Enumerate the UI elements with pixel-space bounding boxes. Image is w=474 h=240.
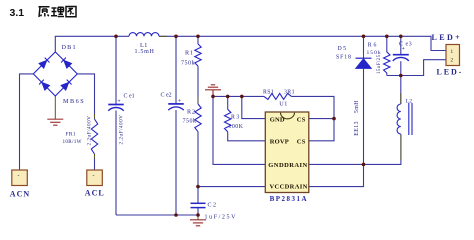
svg-text:L2: L2 — [406, 98, 412, 104]
svg-text:-: - — [93, 173, 95, 179]
svg-text:LED-: LED- — [437, 67, 464, 76]
svg-text:C e1: C e1 — [124, 93, 135, 99]
svg-text:L1: L1 — [140, 42, 148, 49]
svg-text:15uF/25: 15uF/25 — [377, 54, 382, 74]
svg-text:R6: R6 — [368, 42, 379, 48]
svg-text:-: - — [18, 173, 20, 179]
svg-text:750k: 750k — [183, 118, 197, 124]
svg-text:C e2: C e2 — [161, 93, 172, 99]
svg-text:1: 1 — [451, 49, 454, 55]
svg-text:ROVP: ROVP — [270, 138, 289, 145]
svg-text:R2: R2 — [187, 108, 196, 115]
svg-text:10R/1W: 10R/1W — [63, 139, 82, 145]
svg-text:+: + — [118, 98, 121, 104]
svg-text:C 2: C 2 — [208, 203, 217, 209]
svg-text:GNDDRAIN: GNDDRAIN — [268, 162, 307, 169]
svg-text:MB6S: MB6S — [63, 98, 85, 105]
svg-text:VCCDRAIN: VCCDRAIN — [270, 183, 308, 190]
svg-text:1.5mH: 1.5mH — [135, 49, 155, 55]
svg-text:ACN: ACN — [10, 190, 30, 199]
svg-text:1uF/25V: 1uF/25V — [205, 215, 238, 221]
svg-text:+: + — [402, 46, 405, 52]
svg-text:D 5: D 5 — [338, 46, 347, 52]
svg-text:RS1: RS1 — [263, 89, 274, 95]
svg-text:FR1: FR1 — [66, 131, 77, 137]
svg-text:2.2uF/400V: 2.2uF/400V — [119, 115, 125, 145]
svg-text:3.1: 3.1 — [10, 7, 25, 19]
svg-text:GND: GND — [270, 116, 285, 123]
svg-text:+: + — [178, 98, 181, 104]
svg-text:R1: R1 — [185, 49, 194, 56]
svg-text:2.2uF/400V: 2.2uF/400V — [87, 116, 93, 146]
svg-text:ACL: ACL — [85, 189, 105, 198]
svg-text:CS: CS — [297, 138, 306, 145]
svg-text:DB1: DB1 — [62, 44, 77, 51]
svg-text:SF18: SF18 — [336, 55, 352, 61]
svg-text:R 3: R 3 — [231, 114, 239, 120]
svg-text:BP2831A: BP2831A — [270, 195, 309, 203]
svg-text:2: 2 — [451, 58, 454, 64]
svg-text:CS: CS — [297, 116, 306, 123]
svg-text:100K: 100K — [229, 124, 244, 130]
svg-text:EE13 5mH: EE13 5mH — [354, 100, 360, 136]
svg-text:3R1: 3R1 — [284, 89, 295, 95]
svg-text:LED+: LED+ — [432, 33, 463, 42]
svg-text:U1: U1 — [279, 101, 288, 108]
svg-text:750k: 750k — [181, 61, 195, 67]
